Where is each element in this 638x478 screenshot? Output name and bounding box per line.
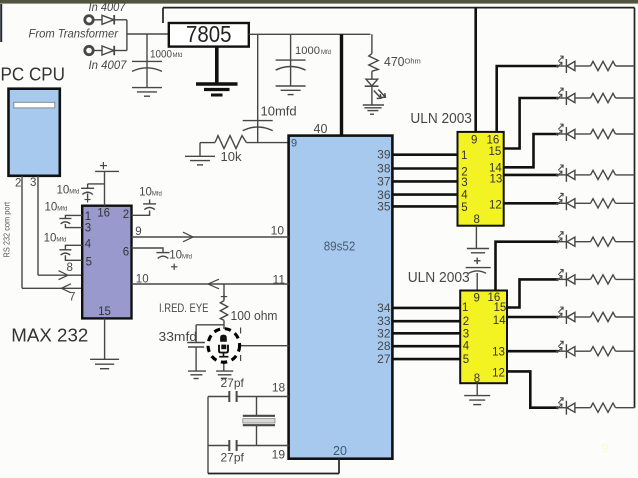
svg-text:16: 16: [487, 134, 500, 146]
svg-text:5: 5: [461, 202, 467, 214]
svg-text:2: 2: [463, 316, 469, 328]
svg-text:9: 9: [291, 138, 297, 150]
svg-text:In 4007: In 4007: [89, 2, 127, 14]
svg-text:27: 27: [377, 352, 391, 366]
svg-text:10mfd: 10mfd: [261, 104, 297, 119]
svg-text:27pf: 27pf: [221, 376, 245, 390]
svg-text:1000: 1000: [150, 49, 172, 61]
svg-text:5: 5: [86, 256, 92, 268]
svg-text:ULN 2003: ULN 2003: [410, 111, 472, 127]
svg-text:12: 12: [492, 368, 505, 380]
svg-text:13: 13: [492, 346, 505, 358]
svg-text:Ohm: Ohm: [405, 57, 421, 66]
svg-text:5: 5: [463, 354, 469, 366]
svg-text:100 ohm: 100 ohm: [231, 309, 278, 323]
svg-text:3: 3: [30, 177, 36, 189]
svg-text:39: 39: [377, 148, 391, 162]
svg-text:470: 470: [384, 54, 405, 69]
svg-text:8: 8: [67, 262, 73, 274]
svg-text:35: 35: [377, 199, 391, 213]
svg-text:27pf: 27pf: [221, 451, 245, 465]
svg-text:7: 7: [69, 292, 75, 304]
svg-text:9: 9: [471, 134, 477, 146]
svg-text:RS 232 com port: RS 232 com port: [2, 201, 12, 257]
svg-text:Mfd: Mfd: [321, 50, 331, 56]
svg-text:33mfd: 33mfd: [159, 330, 198, 344]
svg-text:From Transformer: From Transformer: [29, 29, 120, 41]
svg-text:9: 9: [601, 440, 609, 456]
svg-text:4: 4: [463, 341, 470, 353]
svg-text:2: 2: [15, 178, 21, 190]
svg-text:PC CPU: PC CPU: [1, 64, 66, 85]
svg-text:ULN 2003: ULN 2003: [408, 270, 470, 286]
svg-text:1: 1: [461, 150, 467, 162]
svg-text:3: 3: [461, 177, 467, 189]
svg-text:20: 20: [333, 444, 347, 458]
svg-text:1000: 1000: [295, 45, 320, 57]
svg-text:19: 19: [272, 448, 286, 462]
svg-text:3: 3: [85, 223, 91, 235]
svg-text:MAX 232: MAX 232: [11, 326, 88, 346]
svg-text:10: 10: [271, 224, 285, 238]
svg-text:In 4007: In 4007: [89, 60, 128, 72]
svg-text:14: 14: [493, 315, 506, 327]
svg-text:12: 12: [489, 199, 502, 211]
svg-text:13: 13: [490, 174, 503, 186]
svg-text:15: 15: [489, 146, 502, 158]
svg-text:16: 16: [97, 208, 110, 220]
svg-text:32: 32: [377, 326, 391, 340]
svg-text:15: 15: [98, 306, 111, 318]
svg-text:15: 15: [494, 302, 507, 314]
svg-text:I.RED. EYE: I.RED. EYE: [159, 303, 209, 315]
svg-text:18: 18: [272, 380, 286, 394]
svg-text:89s52: 89s52: [324, 240, 356, 254]
svg-text:1: 1: [85, 211, 91, 223]
svg-text:10k: 10k: [221, 149, 242, 164]
svg-text:9: 9: [474, 293, 480, 305]
svg-text:3: 3: [463, 328, 469, 340]
svg-text:4: 4: [461, 189, 468, 201]
svg-text:40: 40: [314, 122, 328, 136]
svg-text:34: 34: [377, 301, 391, 315]
svg-text:8: 8: [474, 214, 480, 226]
svg-text:37: 37: [377, 174, 391, 188]
svg-text:7805: 7805: [186, 21, 232, 47]
svg-text:4: 4: [85, 239, 92, 251]
svg-text:28: 28: [377, 339, 391, 353]
svg-text:Mfd: Mfd: [173, 53, 183, 59]
svg-text:6: 6: [123, 247, 129, 259]
svg-text:8: 8: [474, 373, 480, 385]
svg-text:1: 1: [462, 302, 468, 314]
svg-text:38: 38: [377, 162, 391, 176]
svg-text:2: 2: [123, 209, 129, 221]
